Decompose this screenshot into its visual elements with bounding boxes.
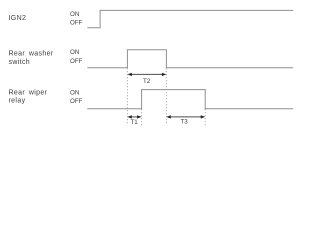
svg-text:ON: ON: [70, 11, 79, 18]
svg-text:ON: ON: [70, 49, 79, 56]
svg-text:relay: relay: [9, 98, 26, 105]
svg-text:OFF: OFF: [70, 98, 83, 105]
svg-text:OFF: OFF: [70, 58, 83, 65]
svg-text:T1: T1: [131, 119, 139, 126]
svg-text:OFF: OFF: [70, 20, 83, 27]
svg-text:switch: switch: [9, 59, 31, 66]
svg-text:IGN2: IGN2: [9, 15, 27, 22]
svg-text:Rear wiper: Rear wiper: [9, 90, 48, 97]
svg-text:ON: ON: [70, 90, 79, 97]
svg-text:T2: T2: [143, 78, 151, 85]
svg-text:T3: T3: [181, 119, 189, 126]
svg-text:Rear washer: Rear washer: [9, 51, 54, 58]
